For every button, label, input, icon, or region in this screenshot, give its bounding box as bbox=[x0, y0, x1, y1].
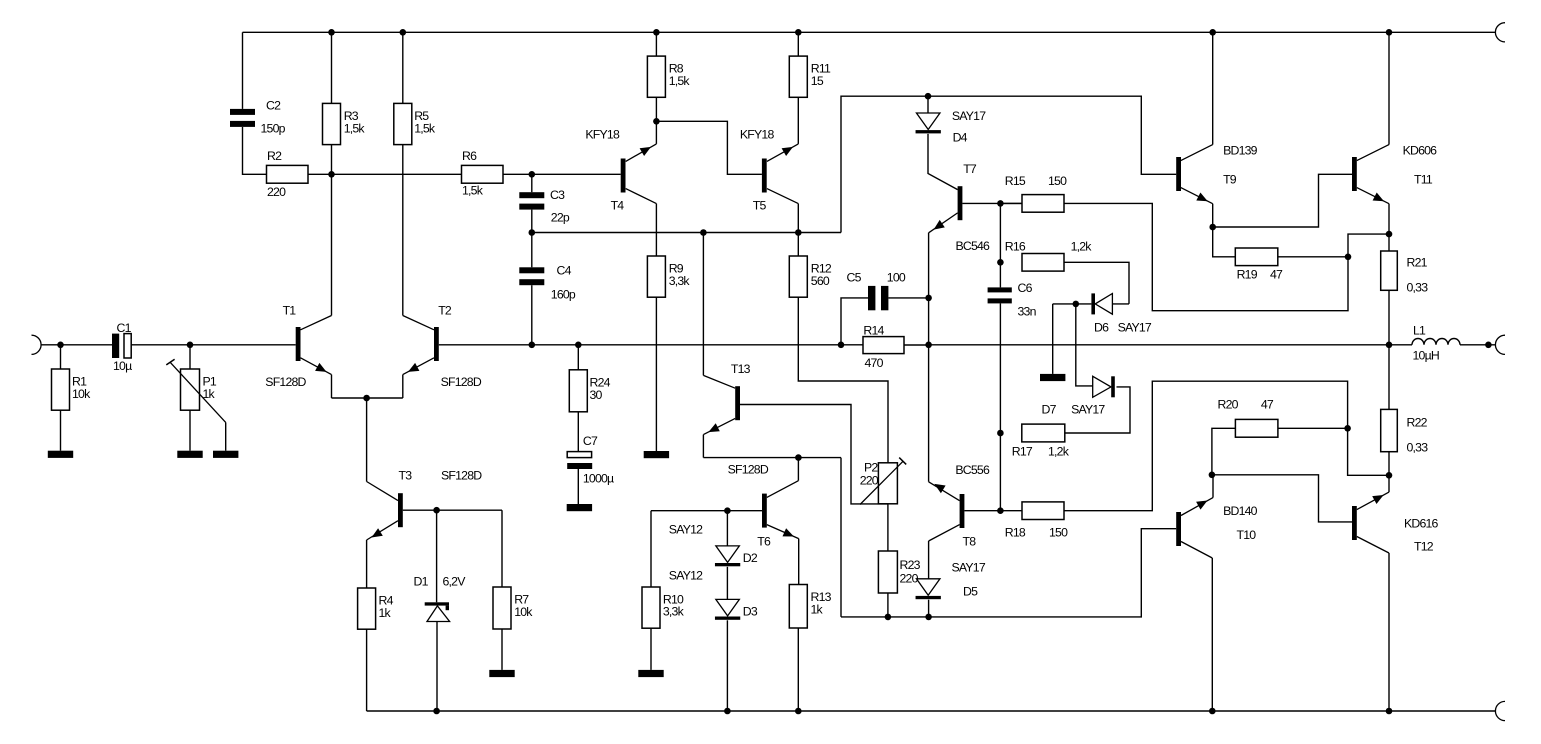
capacitor C6 33n bbox=[988, 281, 1037, 319]
wire R20 node down to R22 bottom bbox=[1348, 428, 1389, 475]
resistor R8 1,5k bbox=[647, 56, 690, 97]
wire T9 emitter to T11 base bbox=[1213, 174, 1352, 227]
wire T6 base line bbox=[651, 510, 762, 512]
wire R20 right leg bbox=[1278, 427, 1348, 429]
wire VAS node up-over to T9 base bbox=[841, 96, 1176, 232]
wire T10 emitter to T12 base bbox=[1212, 475, 1352, 522]
ground below P1 body bbox=[177, 451, 202, 458]
node T9 emitter junction bbox=[1209, 224, 1216, 231]
wire R22 bottom stem bbox=[1388, 452, 1390, 476]
svg-text:R20: R20 bbox=[1218, 397, 1239, 411]
svg-text:D7: D7 bbox=[1042, 403, 1057, 417]
wire R12 to P2 top bbox=[798, 297, 888, 463]
wire R24 stem bbox=[577, 345, 579, 370]
wire R19 right leg bbox=[1278, 256, 1348, 258]
wire D2 top stem bbox=[726, 511, 728, 546]
diode D4 SAY17 bbox=[916, 109, 987, 144]
wire R3 top stem bbox=[331, 32, 333, 103]
transistor T7 BC546 bbox=[929, 162, 990, 253]
resistor R10 3,3k bbox=[642, 587, 685, 628]
transistor T6 SF128D bbox=[757, 481, 798, 549]
resistor R2 220 bbox=[267, 149, 309, 199]
svg-text:3,3k: 3,3k bbox=[663, 604, 685, 618]
wire R6 to T4 base bbox=[503, 173, 621, 175]
svg-text:T2: T2 bbox=[438, 303, 452, 317]
wire C4 bottom stem bbox=[531, 285, 533, 345]
wire R9 to ground bbox=[655, 297, 657, 451]
resistor R6 1,5k bbox=[462, 149, 504, 198]
wire C3 top stem bbox=[531, 174, 533, 192]
resistor R19 47 bbox=[1235, 248, 1283, 281]
svg-text:SF128D: SF128D bbox=[728, 463, 769, 477]
node R2-R3 junction bbox=[328, 171, 335, 178]
svg-text:SAY17: SAY17 bbox=[952, 109, 986, 123]
node D5 bottom junction bbox=[925, 614, 932, 621]
node C4 bottom junction bbox=[529, 342, 536, 349]
resistor R1 10k bbox=[52, 369, 92, 410]
node R11 rail junction bbox=[795, 29, 802, 36]
svg-text:47: 47 bbox=[1261, 397, 1274, 411]
potentiometer P2 220 bbox=[860, 458, 907, 505]
resistor R23 220 bbox=[878, 551, 920, 593]
node R17 left junction bbox=[997, 430, 1004, 437]
wire T10 collector to rail bbox=[1211, 558, 1213, 711]
wire D6 cathode to ground node bbox=[1053, 303, 1092, 305]
svg-text:C7: C7 bbox=[583, 434, 598, 448]
node T8 base junction bbox=[997, 507, 1004, 514]
node R13 bottom rail junction bbox=[795, 708, 802, 715]
wire D3 to bottom rail bbox=[726, 620, 728, 711]
svg-text:160p: 160p bbox=[551, 288, 576, 302]
node input junction bbox=[57, 342, 64, 349]
ground below R9 bbox=[644, 451, 669, 458]
svg-text:SF128D: SF128D bbox=[265, 375, 306, 389]
svg-text:KD606: KD606 bbox=[1403, 144, 1438, 158]
node T12 collector rail junction bbox=[1386, 708, 1393, 715]
diode D3 SAY12 bbox=[669, 569, 758, 620]
ground below P1 wiper bbox=[213, 451, 238, 458]
svg-text:D1: D1 bbox=[414, 575, 429, 589]
wire T4 emitter node to T5 base bbox=[656, 121, 762, 174]
svg-text:10k: 10k bbox=[72, 387, 91, 401]
svg-text:BC546: BC546 bbox=[956, 239, 991, 253]
ground below C7 bbox=[567, 504, 592, 511]
svg-text:T3: T3 bbox=[399, 469, 413, 483]
wire T10 emitter up to R20 bbox=[1212, 428, 1236, 475]
node D1 top junction bbox=[433, 507, 440, 514]
svg-text:T7: T7 bbox=[963, 162, 977, 176]
wire C2 top stem bbox=[242, 32, 244, 109]
node R19 right junction bbox=[1345, 253, 1352, 260]
wire R3 to T1 collector bbox=[331, 145, 333, 316]
wire D4 to T7 collector bbox=[928, 134, 958, 190]
svg-text:R17: R17 bbox=[1012, 445, 1033, 459]
wire L1 to output terminal bbox=[1460, 344, 1495, 346]
wire R22 top to output bbox=[1388, 345, 1390, 410]
svg-text:R6: R6 bbox=[462, 149, 477, 163]
inductor L1 10µH bbox=[1412, 324, 1460, 363]
node C3 top junction bbox=[529, 171, 536, 178]
wire T3 base line bbox=[403, 509, 502, 511]
svg-text:SAY17: SAY17 bbox=[1118, 321, 1152, 335]
svg-text:T1: T1 bbox=[283, 303, 297, 317]
node D6-D7 junction bbox=[1073, 301, 1080, 308]
node R16 left junction bbox=[997, 259, 1004, 266]
resistor R15 150 bbox=[1005, 174, 1067, 212]
wire D1 to bottom rail bbox=[436, 622, 438, 712]
svg-text:30: 30 bbox=[590, 388, 603, 402]
svg-text:1k: 1k bbox=[203, 387, 216, 401]
resistor R18 150 bbox=[1005, 502, 1068, 540]
node C5 right junction bbox=[925, 295, 932, 302]
node tail junction bbox=[363, 395, 370, 402]
wire C5 right leg bbox=[888, 297, 928, 299]
wire lower bias line bbox=[841, 529, 1176, 617]
wire R13 to bottom rail bbox=[797, 628, 799, 711]
wire D1 top stem bbox=[436, 510, 438, 602]
svg-text:R14: R14 bbox=[863, 324, 884, 338]
wire D2 to D3 bbox=[726, 567, 728, 600]
svg-text:T11: T11 bbox=[1414, 173, 1433, 187]
svg-text:P2: P2 bbox=[864, 461, 878, 475]
wire T13 emitter to T6 node bbox=[703, 457, 841, 459]
wire C3 bottom stem bbox=[531, 210, 533, 233]
wire R10 to ground bbox=[650, 628, 652, 670]
resistor R11 15 bbox=[789, 56, 831, 97]
svg-text:BC556: BC556 bbox=[955, 463, 990, 477]
node T10 emitter junction bbox=[1209, 472, 1216, 479]
wire R8 to T4 emitter node bbox=[655, 97, 657, 121]
potentiometer P1 1k bbox=[166, 359, 225, 422]
resistor R7 10k bbox=[493, 587, 533, 629]
wire P1 wiper to ground bbox=[225, 422, 227, 450]
node R24 top junction bbox=[575, 342, 582, 349]
svg-text:L1: L1 bbox=[1413, 324, 1426, 338]
node R22 bottom junction bbox=[1386, 472, 1393, 479]
terminal bottom-right supply connector bbox=[1495, 701, 1505, 720]
wire T13 emitter stem bbox=[702, 435, 704, 458]
node T7 base junction bbox=[997, 200, 1004, 207]
svg-text:47: 47 bbox=[1270, 267, 1283, 281]
resistor R5 1,5k bbox=[394, 103, 436, 144]
node T11 emitter junction bbox=[1386, 231, 1393, 238]
svg-text:R23: R23 bbox=[900, 558, 921, 572]
transistor T5 KFY18 bbox=[740, 97, 798, 212]
wire T13 collector stem bbox=[702, 233, 704, 376]
wire T9 emitter stem bbox=[1212, 204, 1214, 227]
transistor T4 KFY18 bbox=[585, 121, 656, 212]
transistor T13 SF128D bbox=[703, 362, 768, 477]
svg-text:T8: T8 bbox=[963, 535, 977, 549]
capacitor C1 bbox=[112, 321, 132, 373]
node D3 bottom rail junction bbox=[724, 708, 731, 715]
svg-text:T13: T13 bbox=[731, 362, 751, 376]
node R20 right junction bbox=[1344, 425, 1351, 432]
wire R18 right to R20 node bbox=[1064, 381, 1348, 511]
wire R23 bottom stem bbox=[887, 593, 889, 617]
wire T7 base line bbox=[962, 202, 1022, 204]
svg-text:BD140: BD140 bbox=[1223, 504, 1258, 518]
diode D2 SAY12 bbox=[669, 523, 758, 567]
wire T12 emitter stem bbox=[1388, 475, 1390, 492]
svg-text:220: 220 bbox=[860, 474, 879, 488]
wire R14 to output node bbox=[904, 344, 929, 346]
resistor R3 1,5k bbox=[323, 103, 366, 144]
transistor T3 SF128D bbox=[367, 469, 483, 541]
node T13 collector junction bbox=[700, 229, 707, 236]
svg-text:100: 100 bbox=[887, 271, 906, 285]
svg-text:3,3k: 3,3k bbox=[669, 274, 691, 288]
wire T5 collector stem bbox=[797, 204, 799, 233]
svg-text:15: 15 bbox=[811, 74, 824, 88]
svg-text:33n: 33n bbox=[1018, 305, 1037, 319]
svg-text:R21: R21 bbox=[1407, 256, 1428, 270]
svg-text:D4: D4 bbox=[953, 130, 968, 144]
svg-text:D2: D2 bbox=[743, 551, 758, 565]
svg-text:SF128D: SF128D bbox=[441, 469, 482, 483]
wire R7 top stem bbox=[501, 510, 503, 587]
wire top supply rail bbox=[243, 31, 1496, 33]
svg-text:SAY17: SAY17 bbox=[1071, 403, 1105, 417]
wire T13 base to P2 bottom bbox=[740, 405, 888, 504]
svg-text:D3: D3 bbox=[743, 605, 758, 619]
svg-text:T4: T4 bbox=[611, 199, 625, 213]
svg-text:D5: D5 bbox=[963, 585, 978, 599]
svg-text:0,33: 0,33 bbox=[1407, 281, 1429, 295]
svg-text:150: 150 bbox=[1048, 174, 1067, 188]
wire T1 emitter stem bbox=[331, 375, 333, 398]
wire R1 stem bbox=[60, 345, 62, 369]
svg-text:C6: C6 bbox=[1018, 281, 1033, 295]
svg-text:150: 150 bbox=[1049, 525, 1068, 539]
node R3 top rail junction bbox=[328, 29, 335, 36]
wire R10 top stem bbox=[650, 511, 652, 587]
svg-text:10µ: 10µ bbox=[113, 359, 132, 373]
wire R1 to ground bbox=[60, 410, 62, 451]
wire R5 to T2 collector bbox=[402, 145, 404, 316]
wire T4 collector stem bbox=[655, 204, 657, 256]
wire C2 bottom to R2 bbox=[243, 127, 267, 174]
resistor R12 560 bbox=[789, 256, 832, 297]
svg-text:R15: R15 bbox=[1005, 174, 1026, 188]
resistor R22 0,33 bbox=[1381, 409, 1428, 454]
svg-text:10k: 10k bbox=[514, 605, 533, 619]
node T9 collector rail junction bbox=[1209, 29, 1216, 36]
wire P1 body to ground bbox=[189, 410, 191, 451]
resistor R4 1k bbox=[358, 588, 394, 629]
wire D6 anode leg bbox=[1112, 303, 1129, 305]
resistor R20 47 bbox=[1218, 397, 1278, 437]
wire T6 node to bias line bbox=[840, 458, 842, 617]
wire R17 right to D7 cathode bbox=[1065, 387, 1130, 433]
svg-text:22p: 22p bbox=[551, 211, 570, 225]
wire D5 to bias line bbox=[928, 600, 930, 617]
transistor T2 SF128D bbox=[403, 303, 482, 389]
svg-text:10µH: 10µH bbox=[1413, 349, 1439, 363]
wire T10 emitter stem bbox=[1212, 475, 1214, 498]
wire T7 emitter to output node bbox=[928, 233, 930, 482]
transistor T10 BD140 bbox=[1176, 498, 1257, 558]
node D1 bottom rail junction bbox=[433, 708, 440, 715]
wire input to C1 bbox=[41, 344, 112, 346]
diode D6 SAY17 bbox=[1091, 293, 1152, 334]
ground midpoint reference bbox=[1040, 374, 1065, 381]
wire T12 collector to rail bbox=[1388, 553, 1390, 711]
svg-text:1000µ: 1000µ bbox=[583, 472, 614, 486]
svg-text:1,5k: 1,5k bbox=[462, 184, 484, 198]
svg-text:C4: C4 bbox=[557, 264, 572, 278]
node R5 top rail junction bbox=[400, 29, 407, 36]
svg-text:T12: T12 bbox=[1414, 540, 1434, 554]
wire R8 top stem bbox=[655, 32, 657, 56]
terminal output connector bbox=[1495, 335, 1505, 354]
wire R7 to ground bbox=[501, 629, 503, 670]
wire R15 right to R19 node bbox=[1064, 203, 1348, 310]
wire output line bbox=[929, 344, 1412, 346]
wire R2 to R6 bbox=[308, 173, 462, 175]
node T11 collector rail junction bbox=[1386, 29, 1393, 36]
node P1 top junction bbox=[187, 342, 194, 349]
transistor T11 KD606 bbox=[1352, 32, 1437, 203]
svg-text:C3: C3 bbox=[550, 188, 565, 202]
capacitor C2 150p bbox=[230, 99, 286, 136]
svg-text:6,2V: 6,2V bbox=[443, 575, 467, 589]
svg-text:SF128D: SF128D bbox=[441, 375, 482, 389]
ground below R1 bbox=[48, 451, 73, 458]
wire R21 to output bbox=[1388, 290, 1390, 345]
svg-text:1,5k: 1,5k bbox=[414, 121, 436, 135]
svg-text:SAY12: SAY12 bbox=[669, 523, 703, 537]
wire R24 to C7 bbox=[577, 412, 579, 452]
svg-text:C5: C5 bbox=[847, 271, 862, 285]
svg-text:T6: T6 bbox=[757, 535, 771, 549]
wire R19 node up to R21 top bbox=[1348, 234, 1389, 257]
transistor T8 BC556 bbox=[929, 463, 990, 549]
resistor R16 1,2k bbox=[1005, 239, 1092, 271]
node T10 collector rail junction bbox=[1209, 708, 1216, 715]
node R8 rail junction bbox=[653, 29, 660, 36]
wire P2 to R23 bbox=[887, 504, 889, 551]
svg-text:R22: R22 bbox=[1407, 416, 1428, 430]
wire T3 emitter stem bbox=[366, 540, 368, 588]
wire tail to T3 collector bbox=[366, 398, 368, 482]
wire R16 right to D6 anode bbox=[1064, 262, 1129, 304]
svg-text:R2: R2 bbox=[267, 149, 282, 163]
svg-text:SAY17: SAY17 bbox=[952, 561, 986, 575]
transistor T9 BD139 bbox=[1176, 32, 1257, 203]
svg-text:D6: D6 bbox=[1094, 321, 1109, 335]
wire D6 node to D7 anode bbox=[1076, 304, 1093, 386]
ground below R10 bbox=[638, 670, 663, 677]
svg-text:1,5k: 1,5k bbox=[344, 121, 366, 135]
svg-text:BD139: BD139 bbox=[1223, 144, 1258, 158]
wire R15 left leg bbox=[1000, 202, 1022, 204]
wire T8 base line bbox=[964, 510, 1022, 512]
node D4 anode junction bbox=[925, 93, 932, 100]
wire C7 to ground bbox=[577, 469, 579, 504]
node T6 collector junction bbox=[795, 454, 802, 461]
wire C3-C4 node line bbox=[532, 232, 841, 234]
node R14 left junction bbox=[838, 342, 845, 349]
svg-text:T5: T5 bbox=[753, 199, 767, 213]
wire P1 stem bbox=[189, 345, 191, 369]
wire diff pair tail bbox=[332, 397, 403, 399]
resistor R13 1k bbox=[789, 585, 831, 629]
node R21-R22 output junction bbox=[1386, 342, 1393, 349]
svg-text:R18: R18 bbox=[1005, 525, 1026, 539]
svg-text:R16: R16 bbox=[1005, 239, 1026, 253]
svg-text:1,2k: 1,2k bbox=[1071, 239, 1093, 253]
svg-text:KD616: KD616 bbox=[1404, 517, 1439, 531]
svg-text:1,2k: 1,2k bbox=[1048, 445, 1070, 459]
svg-text:0,33: 0,33 bbox=[1407, 441, 1429, 455]
svg-text:KFY18: KFY18 bbox=[585, 128, 620, 142]
transistor T1 SF128D bbox=[265, 303, 331, 389]
svg-text:560: 560 bbox=[811, 274, 830, 288]
zener diode D1 6,2V bbox=[414, 575, 467, 622]
wire R4 to bottom rail bbox=[366, 629, 368, 711]
ground below R7 bbox=[489, 670, 514, 677]
wire C5 left leg bbox=[841, 298, 868, 345]
capacitor C7 1000µ bbox=[567, 434, 614, 486]
wire T8 collector to D5 bbox=[928, 541, 930, 579]
resistor R17 1,2k bbox=[1012, 424, 1070, 458]
svg-text:C1: C1 bbox=[117, 321, 132, 335]
wire T9 emitter down to R19 bbox=[1213, 227, 1236, 257]
svg-text:KFY18: KFY18 bbox=[740, 128, 775, 142]
wire R12 top stem bbox=[797, 233, 799, 257]
wire C1 to T1 base bbox=[131, 344, 296, 346]
wire R5 top stem bbox=[402, 32, 404, 103]
node R23 bottom junction bbox=[885, 614, 892, 621]
resistor R14 470 bbox=[863, 324, 904, 371]
diode D7 SAY17 bbox=[1042, 376, 1115, 416]
wire T6 emitter stem bbox=[798, 539, 800, 585]
wire C4 top stem bbox=[531, 233, 533, 268]
wire R11 top stem bbox=[797, 32, 799, 56]
wire bottom supply rail bbox=[367, 710, 1496, 712]
svg-text:150p: 150p bbox=[261, 122, 286, 136]
svg-text:C2: C2 bbox=[266, 99, 281, 113]
wire T6 collector stem bbox=[797, 458, 799, 481]
node D2 top junction bbox=[724, 507, 731, 514]
svg-text:T9: T9 bbox=[1223, 173, 1237, 187]
wire T11 emitter stem bbox=[1388, 204, 1390, 251]
resistor R9 3,3k bbox=[647, 256, 690, 297]
svg-text:T10: T10 bbox=[1237, 528, 1257, 542]
svg-text:1,5k: 1,5k bbox=[669, 74, 691, 88]
capacitor C3 22p bbox=[519, 188, 570, 225]
transistor T12 KD616 bbox=[1352, 492, 1439, 553]
wire ground stem bbox=[1052, 304, 1054, 374]
capacitor C5 100 bbox=[847, 271, 906, 311]
diode D5 SAY17 bbox=[916, 561, 986, 600]
resistor R24 30 bbox=[569, 370, 610, 412]
node output mid junction bbox=[925, 342, 932, 349]
terminal input connector bbox=[32, 335, 42, 354]
svg-text:220: 220 bbox=[267, 185, 286, 199]
wire R17 down to T8 base bbox=[999, 433, 1001, 511]
svg-text:470: 470 bbox=[865, 356, 884, 370]
svg-text:SAY12: SAY12 bbox=[669, 569, 703, 583]
wire C6 down chain bbox=[999, 303, 1001, 433]
terminal top-right supply connector bbox=[1495, 23, 1505, 42]
node T5 collector junction bbox=[795, 229, 802, 236]
wire T2 base feedback line bbox=[439, 344, 863, 346]
node C3-C4 junction bbox=[529, 229, 536, 236]
capacitor C4 160p bbox=[519, 264, 576, 302]
resistor R21 0,33 bbox=[1381, 251, 1428, 295]
